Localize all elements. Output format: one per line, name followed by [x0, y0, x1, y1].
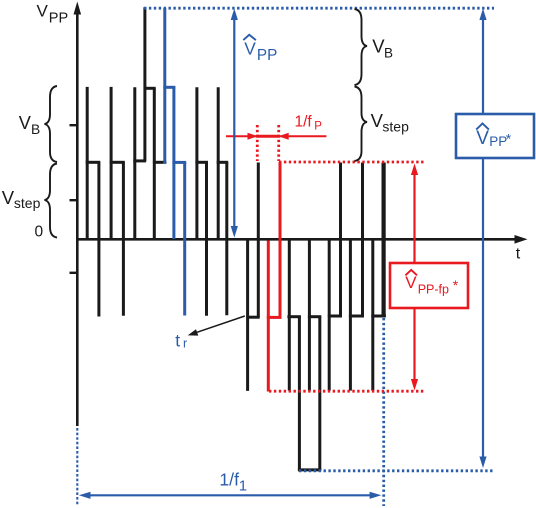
svg-text:PP: PP: [489, 134, 507, 149]
svg-text:1: 1: [239, 478, 247, 495]
svg-text:1/f: 1/f: [295, 114, 313, 131]
svg-text:1/f: 1/f: [219, 469, 239, 489]
svg-text:V: V: [244, 39, 256, 59]
svg-text:r: r: [183, 337, 187, 351]
svg-text:B: B: [384, 46, 393, 61]
svg-text:V: V: [37, 1, 49, 20]
svg-text:step: step: [382, 119, 409, 135]
svg-text:P: P: [314, 121, 322, 133]
svg-text:step: step: [14, 195, 41, 211]
svg-text:t: t: [516, 246, 521, 263]
svg-text:t: t: [175, 331, 180, 351]
svg-text:V: V: [19, 113, 32, 133]
svg-text:V: V: [476, 128, 489, 149]
svg-text:*: *: [453, 277, 459, 293]
svg-text:*: *: [506, 131, 512, 147]
svg-text:B: B: [31, 122, 40, 137]
svg-text:PP-fp: PP-fp: [418, 283, 449, 297]
svg-text:V: V: [2, 187, 15, 208]
svg-text:V: V: [405, 273, 417, 292]
svg-text:0: 0: [35, 223, 44, 240]
svg-text:PP: PP: [49, 10, 68, 26]
svg-text:PP: PP: [257, 47, 277, 64]
